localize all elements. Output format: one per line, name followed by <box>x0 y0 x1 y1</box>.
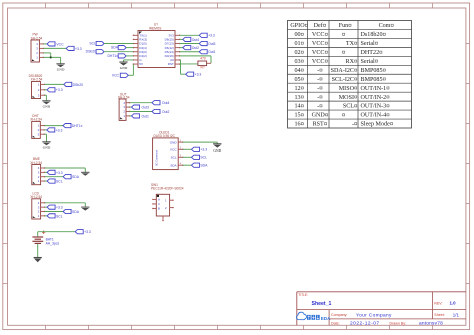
net flag DHT1x into U1 <box>107 54 126 58</box>
title block logo JLCEDA <box>296 312 331 321</box>
switch SW1 body <box>156 194 169 216</box>
svg-text:OUT/IN-3: OUT/IN-3 <box>361 104 387 110</box>
resistor R1 470 <box>198 57 211 70</box>
net flag +3.3 DHT <box>47 128 63 133</box>
net flag +3.3 U1 3V3 <box>199 33 215 38</box>
svg-text:-: - <box>317 86 319 92</box>
wire BME pin2 to SDA <box>45 176 64 178</box>
svg-text:Drawn By:: Drawn By: <box>390 321 407 325</box>
svg-text:Out3: Out3 <box>142 106 149 110</box>
net flag DHT1x <box>63 124 83 129</box>
svg-text:GND: GND <box>43 105 51 109</box>
net flag Out3 U1 <box>199 41 215 45</box>
net flag +3.3 BME <box>47 170 63 175</box>
wire OUT pin3 to Out3 <box>130 106 132 108</box>
wire PW pin1 to ground <box>43 57 60 63</box>
wire PW pin2 down to pin1 <box>43 53 50 58</box>
svg-text:VCC: VCC <box>56 42 64 46</box>
svg-text:EDA: EDA <box>321 316 331 321</box>
net flag +3.3 PW <box>66 46 82 51</box>
svg-text:XH-2.54: XH-2.54 <box>31 78 43 82</box>
svg-text:GND: GND <box>170 140 178 144</box>
net flag +3.3 OLED1 <box>192 147 208 152</box>
svg-text:Date:: Date: <box>331 321 340 325</box>
svg-text:+3.3: +3.3 <box>200 148 207 152</box>
wire BME pin3 to +3.3 <box>45 171 48 173</box>
net flag VCC <box>47 42 64 47</box>
connector OUT pins <box>126 102 130 117</box>
svg-text:GND: GND <box>43 146 51 150</box>
svg-text:+3.3: +3.3 <box>84 230 91 234</box>
frame column ticks top edge <box>46 3 433 8</box>
svg-text:13: 13 <box>294 95 300 101</box>
wire BME pin1 to SCL <box>45 180 48 182</box>
connector DHT designator <box>30 114 42 122</box>
wire PW pin4 to VCC <box>43 43 47 45</box>
svg-text:Out2: Out2 <box>192 46 199 50</box>
svg-text:GND: GND <box>57 68 65 72</box>
net flag +3.3 U1 A0 <box>186 72 202 77</box>
svg-text:REV:: REV: <box>434 301 442 305</box>
svg-text:A: A <box>158 198 160 202</box>
svg-text:SDA: SDA <box>111 46 119 50</box>
svg-text:Serial: Serial <box>361 41 376 47</box>
module OLED1 pin names <box>170 140 178 167</box>
connector BME designator <box>30 157 42 165</box>
svg-text:DHT1x: DHT1x <box>72 124 83 128</box>
svg-text:+3.3: +3.3 <box>208 34 215 38</box>
net flag SCL LCD <box>47 214 63 219</box>
module U1 left pin stubs <box>133 35 138 65</box>
net flag DSb20 into U1 <box>86 50 104 54</box>
connector DS18B20 body <box>32 82 41 99</box>
wire U1 D8 to Out4 <box>180 38 183 40</box>
svg-text:Fun: Fun <box>339 23 348 29</box>
wire OLED1 GND pin to ground <box>183 142 218 144</box>
svg-text:C: C <box>158 202 160 206</box>
wire U1 D6 to Out2 <box>180 47 183 49</box>
connector PW body <box>31 40 39 62</box>
connector PW pins <box>39 43 44 58</box>
module OLED1 designator <box>153 130 175 138</box>
svg-text:antonsv78: antonsv78 <box>419 320 443 326</box>
svg-text:Sheet_1: Sheet_1 <box>312 301 332 307</box>
net flag +3.3 DS18B20 <box>47 88 63 93</box>
svg-text:+3.3: +3.3 <box>56 206 63 210</box>
svg-text:2022-12-07: 2022-12-07 <box>350 320 380 326</box>
wire U1 RST to resistor <box>180 63 198 65</box>
svg-text:OUT/IN-4: OUT/IN-4 <box>361 113 387 119</box>
wire PW pin3 to +3.3 <box>43 47 66 49</box>
connector LCD pins <box>41 202 46 216</box>
wire U1 5V pin to VCC <box>128 64 133 75</box>
svg-text:TITLE:: TITLE: <box>298 293 308 297</box>
svg-text:WEMOS: WEMOS <box>149 26 161 30</box>
svg-text:GND: GND <box>312 113 326 119</box>
wire OUT pin4 to Out4 <box>130 102 153 104</box>
svg-text:TX: TX <box>346 41 355 47</box>
svg-text:+3.3: +3.3 <box>195 73 202 77</box>
svg-text:15: 15 <box>294 113 300 119</box>
net flag SDA into U1 <box>111 46 126 50</box>
svg-text:SCL-I2C: SCL-I2C <box>332 77 354 83</box>
svg-text:Serial: Serial <box>361 59 376 65</box>
frame row ticks left edge <box>3 44 8 284</box>
connector BME pins <box>41 167 46 181</box>
svg-text:MOSI: MOSI <box>339 95 354 101</box>
svg-text:XH-2.54: XH-2.54 <box>30 118 42 122</box>
wire U1 3V3 to +3.3 <box>180 34 200 36</box>
svg-text:XH-2.54: XH-2.54 <box>30 195 42 199</box>
GPIO table text <box>290 22 393 128</box>
wire battery negative to ground <box>37 244 39 257</box>
svg-text:DHT1x: DHT1x <box>107 54 118 58</box>
wire DHT pin2 to +3.3 <box>44 129 47 131</box>
svg-text:5V: 5V <box>139 62 143 66</box>
wire OUT pin2 to Out2 <box>130 111 153 113</box>
svg-text:DHT22: DHT22 <box>361 50 380 56</box>
switch SW1 right pins <box>170 200 174 209</box>
switch SW1 left pins <box>152 199 156 210</box>
svg-text:05: 05 <box>294 77 300 83</box>
connector OUT body <box>119 99 126 120</box>
ground GND U1 <box>119 62 127 70</box>
svg-text:+3.3: +3.3 <box>75 47 82 51</box>
module U1 WEMOS body <box>138 31 175 68</box>
svg-text:SCL: SCL <box>343 104 354 110</box>
svg-text:-: - <box>352 122 354 128</box>
switch SW1 designator <box>151 183 184 190</box>
svg-text:Out4: Out4 <box>162 101 169 105</box>
svg-text:Company:: Company: <box>331 313 347 317</box>
net flag VCC U1 <box>112 73 128 78</box>
svg-text:12: 12 <box>294 86 300 92</box>
svg-text:RX: RX <box>346 59 355 65</box>
ground GND PW <box>56 64 64 72</box>
wire SDA to U1 D2 <box>126 47 133 49</box>
svg-text:SCL: SCL <box>200 156 207 160</box>
net flag SDA LCD <box>63 209 80 214</box>
module OLED1 pin stubs <box>178 138 183 166</box>
svg-text:00: 00 <box>294 32 300 38</box>
net flag DSb20 <box>64 82 83 87</box>
svg-text:BMP085: BMP085 <box>361 77 383 83</box>
svg-text:1/1: 1/1 <box>453 312 460 317</box>
svg-text:-: - <box>317 77 319 83</box>
wire OUT pin1 to Out1 <box>130 115 132 117</box>
svg-text:SCL: SCL <box>89 41 96 45</box>
svg-text:SDA: SDA <box>170 163 177 167</box>
wire LCD pin4 to ground <box>45 203 86 207</box>
connector LCD designator <box>30 191 42 199</box>
wire OLED1 VCC to +3.3 <box>183 148 192 150</box>
wire LCD pin1 to SCL <box>45 215 48 217</box>
net flag Out1 OUT <box>132 114 149 119</box>
svg-text:VCC: VCC <box>112 74 120 78</box>
net flag Out4 OUT <box>152 101 169 106</box>
net flag Out2 U1 <box>183 46 199 50</box>
net flag Out2 OUT <box>152 109 169 114</box>
wire DS18B20 pin1 to DSb20 <box>45 83 64 85</box>
net flag SDA BME <box>63 175 80 180</box>
svg-text:Ds18b20: Ds18b20 <box>361 32 383 38</box>
GPIO table grid <box>288 21 412 129</box>
net flag SDA OLED1 <box>192 163 209 168</box>
ground GND DS18B20 <box>42 101 50 109</box>
net flag Out4 U1 <box>183 37 199 41</box>
svg-text:VCC: VCC <box>312 41 325 47</box>
svg-text:-: - <box>317 104 319 110</box>
title block date row <box>331 320 443 326</box>
svg-text:+3.3: +3.3 <box>56 128 63 132</box>
ground LCD <box>81 207 89 211</box>
title block frame <box>297 292 466 326</box>
svg-text:16: 16 <box>294 122 300 128</box>
svg-text:Out1: Out1 <box>208 50 215 54</box>
svg-text:DSb20: DSb20 <box>86 50 96 54</box>
svg-text:SCL: SCL <box>171 156 177 160</box>
net flag SCL OLED1 <box>192 155 208 160</box>
net flag Out1 U1 <box>199 50 215 54</box>
svg-text:14: 14 <box>294 104 300 110</box>
svg-text:DSb20: DSb20 <box>73 83 83 87</box>
wire LCD pin2 to SDA <box>45 211 64 213</box>
svg-text:VCC: VCC <box>312 50 325 56</box>
ground GND DHT <box>42 142 50 150</box>
svg-text:VCC: VCC <box>312 59 325 65</box>
title block sheet row <box>434 312 459 317</box>
title block company row <box>331 312 392 318</box>
svg-text:Com: Com <box>379 23 391 29</box>
svg-text:Out1: Out1 <box>142 114 149 118</box>
svg-text:VCC: VCC <box>170 148 177 152</box>
net flag +3.3 LCD <box>47 205 63 210</box>
svg-text:BMP085: BMP085 <box>361 68 383 74</box>
svg-text:PEC11R-4220F-S0024: PEC11R-4220F-S0024 <box>151 187 184 191</box>
svg-text:SDA: SDA <box>200 164 208 168</box>
wire U1 D7 to Out3 <box>180 43 200 45</box>
wire DSb20 to U1 D3 <box>104 51 133 53</box>
wire OLED1 SDA flag <box>183 164 192 166</box>
svg-text:+3.3: +3.3 <box>56 171 63 175</box>
svg-text:IIC-Connector: IIC-Connector <box>155 150 159 166</box>
wire DS18B20 pin3 to ground <box>45 95 47 100</box>
connector BME body <box>32 165 41 185</box>
connector OUT designator <box>118 93 130 100</box>
ground BME <box>81 172 89 176</box>
connector DHT body <box>32 121 41 138</box>
svg-text:Out4: Out4 <box>192 38 199 42</box>
wire DS18B20 pin2 to +3.3 <box>45 89 48 91</box>
svg-text:+3.3: +3.3 <box>56 88 63 92</box>
net flag Out3 OUT <box>132 105 149 110</box>
svg-text:Your Company: Your Company <box>356 312 392 318</box>
svg-text:Sleep Mode: Sleep Mode <box>361 122 391 128</box>
title block sheet name <box>312 301 332 307</box>
svg-text:VCC: VCC <box>312 32 325 38</box>
module U1 right pin names <box>165 33 175 66</box>
junction PW <box>50 56 52 58</box>
switch SW1 bottom pin <box>162 216 163 221</box>
net flag SCL BME <box>47 179 63 184</box>
frame row ticks right edge <box>466 44 470 284</box>
svg-text:SCL: SCL <box>56 214 63 218</box>
svg-text:03: 03 <box>294 59 300 65</box>
svg-text:Def: Def <box>314 22 324 29</box>
svg-text:Out2: Out2 <box>162 110 169 114</box>
svg-text:RST: RST <box>313 122 324 128</box>
frame column ticks bottom edge <box>46 325 433 329</box>
wire U1 D5 to Out1 <box>180 51 200 53</box>
battery BAT1 labels <box>46 237 60 245</box>
connector DS18B20 designator <box>29 74 43 81</box>
svg-text:MISO: MISO <box>339 86 355 92</box>
connector DS18B20 pins <box>41 84 46 96</box>
wire SCL to U1 D1 <box>104 43 133 45</box>
module U1 WEMOS designator <box>149 22 161 30</box>
svg-text:SDA: SDA <box>72 175 80 179</box>
wire LCD pin3 to +3.3 <box>45 206 48 208</box>
svg-text:Sheet:: Sheet: <box>434 313 444 317</box>
svg-text:-: - <box>317 95 319 101</box>
svg-text:GND: GND <box>213 149 221 153</box>
wire U1 D0 to resistor <box>180 56 211 63</box>
svg-text:GPIO: GPIO <box>290 23 305 29</box>
svg-text:01: 01 <box>294 41 300 47</box>
svg-text:Out3: Out3 <box>208 42 215 46</box>
ground battery <box>34 258 42 263</box>
svg-text:R?: R? <box>200 66 204 70</box>
ground GND OLED1 <box>213 144 221 153</box>
title block TITLE text <box>298 293 308 297</box>
module U1 left pin names <box>139 33 147 66</box>
connector LCD body <box>32 199 41 219</box>
wire OLED1 SCL flag <box>183 156 192 158</box>
svg-text:OUT/IN-2: OUT/IN-2 <box>361 95 387 101</box>
svg-text:04: 04 <box>294 68 300 74</box>
wire U1 A0 to +3.3 <box>180 60 186 74</box>
wire DHT1x to U1 D4 <box>126 55 133 57</box>
title block REV <box>434 300 456 305</box>
connector DHT pins <box>40 125 45 135</box>
module OLED1 body <box>153 138 179 170</box>
wire U1 G pin to ground <box>124 60 134 62</box>
connector PW designator <box>31 33 43 41</box>
net flag SCL into U1 <box>89 41 104 45</box>
battery BAT1 plus sign <box>42 231 45 234</box>
svg-text:SDA: SDA <box>72 210 80 214</box>
svg-text:-: - <box>317 68 319 74</box>
wire DHT pin3 to ground <box>44 134 46 141</box>
svg-text:OUT/IN-1: OUT/IN-1 <box>361 86 387 92</box>
svg-text:SCL: SCL <box>56 180 63 184</box>
svg-text:B: B <box>158 207 160 211</box>
battery BAT1 plates <box>32 237 43 243</box>
svg-text:RST: RST <box>168 62 174 66</box>
svg-text:GND: GND <box>120 66 128 70</box>
svg-text:AA_3pcs: AA_3pcs <box>46 241 60 245</box>
wire battery positive to +3.3 <box>38 232 75 237</box>
svg-text:SDA-I2C: SDA-I2C <box>331 68 354 74</box>
wire BME pin4 to ground <box>45 168 86 172</box>
svg-text:1.0: 1.0 <box>450 300 457 305</box>
svg-text:470: 470 <box>200 57 206 61</box>
wire DHT pin1 to DHT1x <box>44 125 63 127</box>
module U1 right pin stubs <box>175 35 180 65</box>
svg-text:02: 02 <box>294 50 300 56</box>
net flag +3.3 battery <box>75 230 91 235</box>
